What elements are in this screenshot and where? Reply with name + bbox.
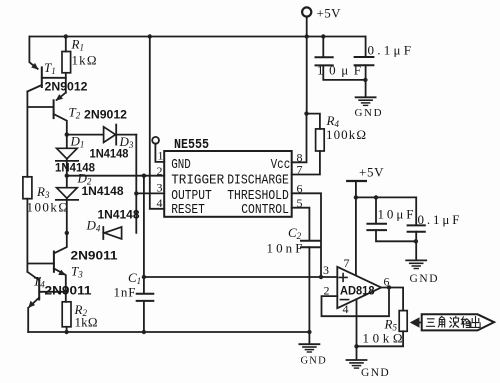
junction dot pin3-loop	[134, 191, 138, 195]
wire opamp pin4 down	[356, 299, 358, 346]
svg-text:1: 1	[158, 149, 164, 163]
transistor T3 2N9011	[27, 233, 117, 302]
svg-text:GND: GND	[171, 158, 191, 173]
ground GND bottom center	[299, 332, 326, 367]
pin number 2	[157, 164, 163, 178]
wire +5V down to Vcc	[306, 37, 308, 114]
pin number 5	[297, 196, 303, 210]
label chinese jiao (angle)	[438, 317, 444, 327]
wire pin5 control	[292, 208, 310, 241]
svg-text:2N9012: 2N9012	[45, 80, 88, 94]
label chinese bo (wave)	[450, 316, 459, 327]
junction dot feedback-output	[387, 285, 391, 289]
svg-text:1N4148: 1N4148	[90, 147, 129, 161]
svg-text:4: 4	[157, 196, 163, 210]
wire trigger node to NE555 pin2	[67, 175, 164, 177]
pin number 3	[157, 181, 163, 195]
wire pin6 threshold	[292, 193, 321, 277]
diode D4 1N4148	[86, 208, 140, 240]
svg-text:2N9011: 2N9011	[45, 284, 92, 298]
svg-text:4: 4	[343, 302, 349, 316]
resistor R1 1k	[62, 37, 97, 93]
resistor R3 100k	[23, 177, 68, 272]
svg-text:10μF: 10μF	[378, 207, 414, 222]
diode D2 1N4148	[56, 171, 124, 200]
wire T1 collector to R3	[26, 92, 28, 177]
junction dot C1 opamp tap	[142, 275, 146, 279]
junction dot R2-rail	[64, 330, 68, 334]
svg-text:+5V: +5V	[317, 6, 342, 21]
svg-text:3: 3	[323, 263, 329, 277]
wire opamp feedback	[322, 287, 390, 316]
svg-text:0.1μF: 0.1μF	[418, 212, 460, 227]
label chinese shu (transport)	[461, 317, 470, 328]
pin label 4 opamp	[343, 302, 349, 316]
wire bottom rail	[28, 331, 309, 333]
wire opamp +input from C1	[144, 276, 337, 278]
label chinese chu (out)	[471, 317, 480, 328]
junction dot rail-10uF	[321, 34, 325, 38]
junction dot loop top	[65, 132, 69, 136]
wiper arrow output	[410, 317, 422, 328]
svg-text:1N4148: 1N4148	[55, 161, 95, 175]
ground GND top	[355, 97, 384, 119]
diode D3 1N4148	[90, 125, 134, 161]
junction dot caps right	[414, 239, 418, 243]
pin label 3 opamp	[323, 263, 329, 277]
svg-text:GND: GND	[355, 107, 384, 119]
wire opamp output to R5	[381, 288, 403, 311]
svg-text:100kΩ: 100kΩ	[326, 127, 366, 142]
capacitor 10uF top-left	[316, 37, 366, 80]
pin label 7 opamp	[344, 256, 350, 270]
junction dot loop bottom	[65, 231, 69, 235]
svg-text:2N9011: 2N9011	[71, 249, 118, 263]
capacitor 0.1uF right	[408, 197, 460, 259]
output banner triangle-wave	[422, 314, 494, 330]
svg-text:AD818: AD818	[340, 284, 375, 298]
pin number 1	[158, 149, 164, 163]
svg-text:1N4148: 1N4148	[98, 208, 140, 222]
svg-text:Vcc: Vcc	[271, 158, 291, 173]
svg-text:1kΩ: 1kΩ	[75, 315, 98, 330]
pin number 7	[297, 163, 303, 177]
wire diode loop top	[67, 134, 137, 136]
svg-text:GND: GND	[301, 356, 327, 367]
svg-text:+5V: +5V	[359, 165, 384, 180]
svg-text:GND: GND	[361, 367, 390, 379]
transistor T4 2N9011	[27, 272, 91, 332]
wire C1 branch down	[143, 176, 145, 294]
wire +5V to caps right	[356, 196, 416, 198]
transistor T2 2N9012	[27, 93, 127, 135]
svg-text:100kΩ: 100kΩ	[27, 200, 69, 215]
svg-text:RESET: RESET	[171, 203, 205, 218]
junction dot 10uF right	[374, 195, 378, 199]
svg-text:7: 7	[344, 256, 350, 270]
label chinese san (three)	[427, 319, 435, 327]
pin number 4	[157, 196, 163, 210]
svg-text:3: 3	[157, 181, 163, 195]
wire diode loop left branch	[66, 135, 68, 233]
pin label 6 opamp	[384, 275, 390, 289]
svg-text:2N9012: 2N9012	[84, 108, 127, 122]
junction dot pin4-R5	[354, 344, 358, 348]
resistor R2 1k	[62, 302, 97, 332]
junction dot Vcc-R4	[304, 111, 308, 115]
junction dot trigger-C1	[142, 174, 146, 178]
wire NE555 pin3 output	[136, 192, 164, 194]
+5V power terminal	[302, 6, 341, 37]
resistor R5 10k potentiometer	[357, 311, 408, 347]
junction dot threshold-input	[319, 275, 323, 279]
svg-text:DISCHARGE: DISCHARGE	[227, 173, 289, 188]
wire diode loop right edge	[135, 135, 137, 233]
junction dot rail-R1	[64, 34, 68, 38]
svg-text:NE555: NE555	[174, 137, 209, 153]
wire Vcc pin8	[292, 114, 307, 163]
svg-text:GND: GND	[410, 273, 440, 285]
capacitor C2 10nF	[267, 225, 321, 332]
svg-text:TRIGGER: TRIGGER	[171, 173, 224, 188]
svg-text:CONTROL: CONTROL	[241, 203, 289, 218]
+5V terminal right	[347, 165, 384, 276]
capacitor 0.1uF top	[355, 37, 411, 97]
junction dot rail-reset	[148, 34, 152, 38]
pin number 6	[297, 182, 303, 196]
capacitor 10uF right	[367, 197, 415, 241]
svg-text:10kΩ: 10kΩ	[363, 331, 403, 346]
op-amp U1 AD818	[337, 267, 381, 308]
junction dot caps top	[363, 78, 367, 82]
diode D1 1N4148	[55, 134, 95, 175]
svg-text:1kΩ: 1kΩ	[72, 53, 97, 68]
ground GND opamp	[347, 346, 391, 379]
pin label 2 opamp	[324, 284, 330, 298]
svg-text:2: 2	[157, 164, 163, 178]
junction dot rail-GND	[307, 330, 311, 334]
junction dot D1-D2 trigger	[65, 174, 69, 178]
junction dot rail-+5V	[305, 34, 309, 38]
pin number 8	[297, 150, 303, 164]
wire NE555 pin4 reset from rail	[150, 37, 164, 209]
junction dot C1-rail	[142, 330, 146, 334]
svg-text:1nF: 1nF	[114, 285, 136, 300]
svg-text:THRESHOLD: THRESHOLD	[227, 189, 289, 204]
transistor T1 2N9012	[27, 37, 87, 94]
ground GND right	[406, 260, 439, 285]
capacitor C1 1nF	[114, 270, 154, 332]
IC NE555 box	[164, 137, 292, 218]
resistor R4 100k	[292, 113, 366, 175]
junction dot +5V right	[354, 195, 358, 199]
wire top +5V rail	[29, 36, 365, 38]
svg-text:1N4148: 1N4148	[82, 184, 124, 198]
svg-text:OUTPUT: OUTPUT	[171, 189, 212, 204]
pin1 terminal circle	[152, 137, 164, 162]
